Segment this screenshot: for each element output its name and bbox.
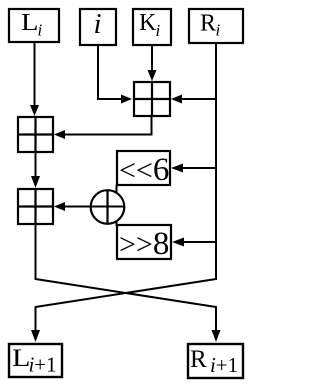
svg-text:i: i bbox=[156, 21, 161, 40]
register box R_i bbox=[189, 9, 243, 43]
wire L_i to adder 1 bbox=[30, 42, 39, 116]
svg-text:i: i bbox=[94, 8, 102, 40]
svg-text:+1: +1 bbox=[34, 353, 56, 377]
wire adder 1 to adder 2 bbox=[31, 153, 40, 188]
svg-text:>>8: >>8 bbox=[119, 226, 169, 262]
adder box 1 (modular addition) bbox=[17, 116, 54, 153]
svg-text:L: L bbox=[21, 10, 39, 36]
key adder box (modular addition) bbox=[133, 81, 171, 117]
crossing wire adder 2 to R_i+1 bbox=[36, 279, 221, 342]
svg-text:R: R bbox=[200, 11, 216, 37]
branch wire R_i to shift right box bbox=[172, 238, 216, 247]
wire adder 2 output down bbox=[35, 225, 37, 280]
svg-text:+1: +1 bbox=[216, 353, 238, 377]
register box L_i bbox=[9, 9, 59, 42]
output box R_i+1 bbox=[188, 344, 243, 378]
crossing wire R_i to L_i+1 bbox=[31, 279, 216, 342]
svg-text:i: i bbox=[38, 21, 43, 40]
branch wire R_i to key adder bbox=[171, 95, 216, 104]
svg-text:R: R bbox=[190, 346, 207, 373]
round counter box i bbox=[80, 8, 116, 45]
wire shift left output into XOR bbox=[116, 185, 118, 193]
key box K_i bbox=[133, 9, 171, 45]
svg-text:K: K bbox=[139, 10, 157, 36]
adder box 2 (modular addition) bbox=[17, 188, 54, 225]
wire i to key adder bbox=[98, 45, 132, 104]
wire K_i to key adder bbox=[148, 45, 157, 81]
key adder output wire to adder 1 bbox=[54, 117, 152, 139]
shift left box <<6 bbox=[117, 151, 170, 188]
output box L_i+1 bbox=[9, 344, 62, 377]
XOR circle bbox=[91, 190, 125, 224]
branch wire R_i to shift left box bbox=[171, 164, 216, 173]
svg-text:i: i bbox=[216, 21, 221, 40]
wire shift right output into XOR bbox=[116, 221, 118, 226]
shift right box >>8 bbox=[117, 225, 171, 262]
XOR output wire to adder 2 bbox=[54, 202, 125, 211]
svg-text:<<6: <<6 bbox=[119, 152, 169, 188]
wire R_i main vertical bbox=[215, 43, 217, 280]
